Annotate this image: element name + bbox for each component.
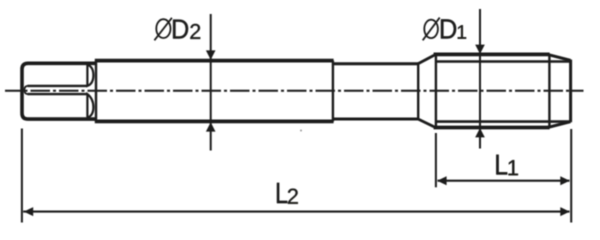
- shank D2 top line: [95, 59, 334, 63]
- text 2 subscript of L2 label: [288, 189, 298, 204]
- diameter symbol of D2: [154, 18, 172, 41]
- square drive outline: [22, 63, 96, 119]
- arrowhead D2 up: [206, 122, 216, 131]
- arrowhead D1 up: [475, 128, 485, 137]
- neck top line: [332, 62, 418, 65]
- speck: [300, 130, 302, 132]
- chamfer slope bottom: [548, 122, 571, 128]
- thread start vertical: [435, 54, 437, 127]
- square inner left cap arc: [24, 86, 27, 94]
- arrowhead L1 left: [437, 176, 446, 185]
- arrowhead D1 down: [475, 45, 485, 54]
- dimension line L2: [23, 211, 569, 213]
- thread outer top line: [434, 53, 550, 57]
- dimension line D2: [210, 14, 212, 151]
- neck bottom line: [332, 118, 418, 121]
- chamfer slope top: [548, 54, 571, 60]
- shank D2 bottom line: [95, 120, 334, 124]
- shank step vertical: [332, 61, 334, 122]
- extension line right (L1/L2): [570, 129, 572, 223]
- extension line left (L2): [21, 129, 23, 223]
- arrowhead L2 right: [560, 207, 569, 216]
- text D of D1 label: [441, 19, 456, 38]
- thread root line top: [436, 60, 570, 63]
- thread root line bottom: [436, 120, 570, 123]
- square runout arc bottom: [87, 94, 93, 118]
- arrowhead L2 left: [24, 207, 33, 216]
- chamfer start vertical: [548, 54, 550, 127]
- text 1 subscript of D1 label: [458, 25, 466, 38]
- tap front end vertical: [569, 60, 572, 123]
- diameter symbol of D1: [423, 18, 440, 41]
- taper top: [418, 55, 435, 64]
- text 2 subscript of D2 label: [190, 24, 200, 39]
- text L of L1 label: [496, 155, 507, 175]
- square end vertical (shank start): [95, 61, 97, 122]
- taper bottom: [418, 119, 435, 127]
- dimension line D1: [479, 9, 481, 149]
- center line (tap axis): [5, 90, 584, 92]
- text 1 subscript of L1 label: [508, 160, 517, 175]
- square inner edge bottom: [28, 93, 88, 95]
- text D of D2 label: [173, 20, 188, 39]
- extension line L1 left: [435, 133, 437, 187]
- square inner edge top: [28, 85, 88, 87]
- neck end vertical: [417, 64, 419, 119]
- square runout arc top: [87, 65, 93, 86]
- arrowhead L1 right: [560, 176, 569, 185]
- dimension line L1: [438, 180, 570, 182]
- arrowhead D2 down: [206, 50, 216, 59]
- thread outer bottom line: [434, 126, 550, 130]
- text L of L2 label: [277, 183, 287, 203]
